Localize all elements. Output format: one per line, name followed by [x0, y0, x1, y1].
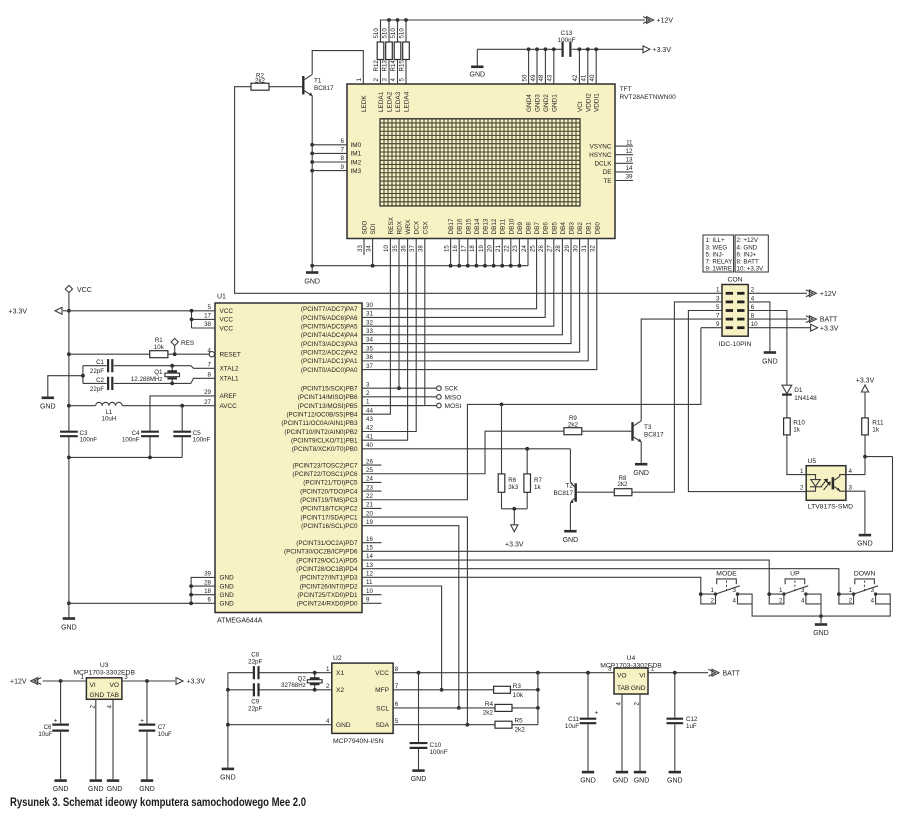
svg-text:24: 24: [366, 476, 373, 483]
svg-text:35: 35: [366, 345, 373, 352]
svg-text:(PCINT29/OC1A)PD5: (PCINT29/OC1A)PD5: [296, 557, 358, 564]
svg-text:X2: X2: [336, 687, 344, 694]
ground (T2): [563, 530, 579, 544]
svg-text:TAB: TAB: [617, 685, 630, 692]
svg-text:VCC: VCC: [375, 670, 389, 677]
wire AREF to C4: [150, 396, 215, 430]
ground (crystal caps): [40, 397, 56, 411]
svg-text:42: 42: [366, 425, 373, 432]
svg-text:44: 44: [366, 407, 373, 414]
svg-text:SCL: SCL: [376, 705, 389, 712]
svg-text:4: 4: [390, 78, 397, 82]
svg-text:R10: R10: [793, 419, 805, 426]
U1 right pin numbers: [366, 302, 373, 604]
svg-text:26: 26: [366, 458, 373, 465]
svg-text:DB5: DB5: [551, 222, 558, 235]
svg-text:(PCINT6/ADC6)PA6: (PCINT6/ADC6)PA6: [301, 315, 358, 322]
svg-text:C2: C2: [96, 377, 104, 384]
svg-text:5: INJ-: 5: INJ-: [706, 251, 724, 258]
wire PC1 SDA vertical to U2: [362, 517, 467, 725]
resistor R1 10k: [69, 337, 175, 358]
svg-text:15: 15: [366, 545, 373, 552]
svg-text:MCP7940N-I/SN: MCP7940N-I/SN: [333, 738, 384, 745]
svg-text:CON: CON: [727, 277, 742, 284]
svg-text:36: 36: [400, 245, 407, 252]
svg-text:10uH: 10uH: [102, 415, 117, 422]
wire +3.3V rail left segment (GND pins): [477, 48, 562, 50]
svg-text:(PCINT4/ADC4)PA4: (PCINT4/ADC4)PA4: [301, 332, 358, 339]
wire CON pin8 to BATT flag: [748, 318, 807, 320]
push button UP: [769, 571, 821, 604]
wire pull-up vertical to VCC net: [537, 673, 539, 725]
node flag RES: [171, 338, 194, 356]
svg-text:GND: GND: [762, 358, 778, 365]
svg-text:13: 13: [626, 157, 633, 164]
svg-text:MOSI: MOSI: [445, 403, 462, 410]
svg-text:GND: GND: [53, 786, 69, 793]
wires DB7-DB0 to PA7-PA0: [362, 255, 597, 370]
svg-text:(PCINT25/TXD0)PD1: (PCINT25/TXD0)PD1: [297, 592, 358, 599]
U1 right pin stubs (unconnected): [362, 465, 382, 603]
svg-text:28: 28: [555, 245, 562, 252]
svg-text:5: 5: [716, 304, 720, 311]
svg-text:22pF: 22pF: [90, 386, 104, 393]
push button MODE: [701, 571, 752, 604]
U3 pin numbers: [81, 674, 129, 708]
svg-text:42: 42: [572, 74, 579, 81]
svg-text:D1: D1: [794, 387, 803, 394]
svg-text:4: 4: [801, 598, 805, 605]
wire R6/R7 to +3.3V: [502, 509, 528, 525]
svg-text:U4: U4: [627, 655, 636, 662]
wire U2 left ground vertical: [227, 673, 229, 768]
svg-text:DB8: DB8: [526, 222, 533, 235]
svg-text:3: 3: [608, 666, 612, 673]
svg-text:10uF: 10uF: [565, 723, 579, 730]
svg-text:11: 11: [626, 139, 633, 146]
svg-text:SCK: SCK: [445, 386, 459, 393]
svg-text:9: 9: [366, 597, 370, 604]
capacitor C3 100nF: [60, 430, 97, 444]
wire U2 X1 row: [228, 672, 332, 674]
svg-text:BATT: BATT: [820, 317, 838, 324]
TFT bottom pin names: [362, 216, 602, 234]
svg-text:TFT: TFT: [620, 86, 632, 93]
svg-text:(PCINT16/SCL)PC0: (PCINT16/SCL)PC0: [301, 523, 358, 530]
svg-text:37: 37: [366, 363, 373, 370]
wire CON pin4 to ground: [748, 302, 770, 351]
svg-text:(PCINT23/TOSC2)PC7: (PCINT23/TOSC2)PC7: [293, 462, 358, 469]
svg-text:510: 510: [382, 28, 389, 39]
wire LEDK pin1 to T1 collector: [312, 51, 363, 84]
svg-text:1: 1: [849, 587, 853, 594]
junction dot emitter-gnd: [310, 264, 314, 268]
node SCK: [437, 386, 459, 393]
svg-text:GND: GND: [220, 592, 235, 599]
svg-text:GND: GND: [220, 575, 235, 582]
svg-text:R5: R5: [515, 718, 524, 725]
svg-text:(PCINT22/TOSC1)PC6: (PCINT22/TOSC1)PC6: [293, 471, 358, 478]
svg-text:1: 1: [651, 666, 655, 673]
wire PD6 row to U5 output net: [362, 457, 893, 552]
ground (U2): [220, 768, 236, 782]
net flag BATT (CON): [806, 316, 838, 324]
svg-text:18: 18: [204, 588, 211, 595]
svg-text:3k3: 3k3: [508, 484, 519, 491]
junction dots GND1-4 pins: [527, 47, 531, 51]
svg-text:16: 16: [452, 245, 459, 252]
svg-text:17: 17: [461, 245, 468, 252]
svg-text:100nF: 100nF: [122, 436, 140, 443]
connector CON IDC-10PIN: [719, 277, 752, 348]
svg-text:LTV817S-SMD: LTV817S-SMD: [808, 503, 853, 510]
resistor R14 510: [390, 20, 401, 84]
wire T2 emitter to ground: [569, 503, 571, 530]
svg-text:GND: GND: [667, 778, 683, 785]
svg-text:DB12: DB12: [491, 218, 498, 234]
svg-text:34: 34: [365, 245, 372, 252]
transistor T3 BC817: [631, 421, 664, 442]
svg-text:AVCC: AVCC: [220, 403, 238, 410]
svg-text:39: 39: [626, 174, 633, 181]
svg-text:DB16: DB16: [457, 218, 464, 234]
svg-text:(PCINT8/XCK0/T0)PB0: (PCINT8/XCK0/T0)PB0: [292, 446, 358, 453]
svg-text:GND: GND: [563, 537, 579, 544]
wires DB17-DB8 to ground bus: [451, 255, 528, 266]
push button DOWN: [839, 571, 890, 604]
TFT right pin numbers: [626, 139, 633, 180]
svg-text:DB0: DB0: [594, 222, 601, 235]
svg-text:LEDA4: LEDA4: [404, 91, 411, 112]
svg-text:1k: 1k: [534, 484, 541, 491]
wire PD2 to U2 MFP: [362, 586, 442, 690]
ground (CON pin4): [762, 351, 778, 365]
svg-text:31: 31: [366, 311, 373, 318]
svg-text:39: 39: [204, 571, 211, 578]
svg-text:RESET: RESET: [220, 352, 241, 359]
svg-text:+3.3V: +3.3V: [856, 378, 875, 385]
net flag +3.3V (U3 output): [176, 678, 205, 686]
voltage regulator U3 MCP1703-3302EDB: [73, 662, 135, 700]
svg-text:3: WEG: 3: WEG: [706, 244, 728, 251]
svg-text:DB17: DB17: [448, 218, 455, 234]
svg-text:(PCINT19/TMS)PC3: (PCINT19/TMS)PC3: [300, 497, 358, 504]
wire +12V rail top: [381, 20, 646, 42]
wire PD4 row to DOWN button: [362, 569, 839, 594]
svg-text:DB7: DB7: [534, 222, 541, 235]
svg-text:ATMEGA644A: ATMEGA644A: [217, 618, 263, 625]
voltage regulator U4 MCP1703-3302EDB: [600, 655, 662, 694]
resistor R7 1k: [524, 449, 543, 509]
svg-text:T3: T3: [644, 424, 652, 431]
svg-text:DB10: DB10: [508, 218, 515, 234]
resistor R11 1k: [846, 392, 884, 475]
svg-text:20: 20: [486, 245, 493, 252]
svg-text:2k2: 2k2: [515, 727, 526, 734]
svg-text:GND: GND: [40, 404, 56, 411]
wire U3 TAB pin to ground: [112, 699, 114, 779]
svg-text:+3.3V: +3.3V: [9, 309, 28, 316]
inductor L1 10uH: [69, 402, 215, 422]
svg-text:2: 2: [779, 598, 783, 605]
svg-text:(PCINT2/ADC2)PA2: (PCINT2/ADC2)PA2: [301, 350, 358, 357]
svg-text:R15: R15: [399, 60, 406, 72]
wire T1 emitter / IM ground line: [311, 96, 313, 266]
capacitor C2 22pF: [83, 377, 215, 393]
svg-text:510: 510: [399, 28, 406, 39]
svg-text:DCX: DCX: [414, 220, 421, 234]
svg-text:(PCINT24/RXD0)PD0: (PCINT24/RXD0)PD0: [297, 601, 358, 608]
svg-text:(PCINT20/TDO)PC4: (PCINT20/TDO)PC4: [300, 488, 358, 495]
wire +3.3V rail right segment (VCI/VDDI): [572, 48, 643, 50]
wire VCC vertical rail: [68, 293, 70, 604]
junction dot UP drive: [767, 592, 771, 596]
resistor R5 2k2: [495, 718, 538, 734]
svg-text:R3: R3: [513, 683, 522, 690]
svg-text:MFP: MFP: [375, 687, 390, 694]
svg-text:510: 510: [390, 28, 397, 39]
wire VCC row U2 to U4: [393, 672, 614, 674]
wire MOSI row PB5: [362, 405, 436, 407]
svg-text:18: 18: [469, 245, 476, 252]
svg-text:DCLK: DCLK: [594, 161, 612, 168]
wire T3 emitter to ground: [640, 442, 642, 463]
svg-text:GND: GND: [88, 786, 104, 793]
ground (C10): [411, 769, 427, 783]
svg-text:1: 1: [800, 468, 804, 475]
svg-text:16: 16: [366, 536, 373, 543]
svg-text:10: 10: [383, 245, 390, 252]
svg-text:2: 2: [326, 683, 330, 690]
svg-text:CSX: CSX: [422, 221, 429, 235]
wire U4 TAB to ground: [621, 694, 623, 771]
wire T3 collector to CON pin7 RELAY: [641, 319, 722, 421]
svg-text:(PCINT15/SCK)PB7: (PCINT15/SCK)PB7: [301, 386, 358, 393]
wire RESX to PB4: [362, 255, 390, 414]
wire CON pin10 to +3.3V flag: [748, 327, 811, 329]
svg-text:9: 9: [341, 164, 345, 171]
svg-text:LEDA1: LEDA1: [378, 91, 385, 112]
svg-text:DB3: DB3: [569, 222, 576, 235]
svg-text:LEDA2: LEDA2: [387, 91, 394, 112]
svg-text:2k2: 2k2: [568, 421, 579, 428]
resistor R4 2k2: [483, 701, 538, 717]
junction dot R6 top: [500, 403, 504, 407]
svg-text:40: 40: [366, 442, 373, 449]
svg-text:41: 41: [366, 433, 373, 440]
svg-text:36: 36: [366, 354, 373, 361]
U2 pin numbers: [326, 666, 399, 725]
svg-text:2k2: 2k2: [618, 481, 629, 488]
svg-text:GND4: GND4: [526, 94, 533, 112]
svg-text:10: 10: [751, 321, 758, 328]
wire MISO row PB6: [362, 396, 436, 398]
svg-text:1: 1: [711, 587, 715, 594]
svg-text:GND: GND: [90, 692, 105, 699]
svg-text:DB2: DB2: [577, 222, 584, 235]
junction dots VCI VDDI2 VDDI1: [578, 47, 582, 51]
svg-text:2: 2: [366, 390, 370, 397]
svg-text:4: 4: [326, 718, 330, 725]
svg-text:RVT28AETNWN00: RVT28AETNWN00: [620, 94, 677, 101]
svg-text:(PCINT7/ADC7)PA7: (PCINT7/ADC7)PA7: [301, 306, 358, 313]
svg-text:2: 2: [849, 598, 853, 605]
capacitor C5 100nF: [173, 406, 210, 458]
svg-text:33: 33: [366, 328, 373, 335]
svg-text:4: 4: [751, 295, 755, 302]
svg-text:32768Hz: 32768Hz: [281, 682, 306, 689]
resistor R2 2k2: [251, 73, 302, 91]
wires U1 GND pins: [69, 577, 215, 603]
svg-text:WRX: WRX: [405, 219, 412, 235]
wire PD3 row to MODE button: [362, 577, 701, 594]
wire button rail to ground: [820, 616, 822, 623]
crystal Q2 32768Hz: [281, 671, 322, 692]
svg-text:10k: 10k: [513, 692, 524, 699]
junction dots IM0-IM3: [310, 143, 314, 147]
svg-text:+: +: [140, 718, 144, 725]
svg-text:SDO: SDO: [362, 221, 369, 235]
svg-text:4: 4: [733, 598, 737, 605]
ground (U5): [857, 534, 873, 548]
svg-text:U5: U5: [808, 458, 817, 465]
svg-text:3: 3: [716, 295, 720, 302]
svg-text:(PCINT9/CLKO/T1)PB1: (PCINT9/CLKO/T1)PB1: [291, 437, 358, 444]
svg-text:(PCINT18/TCK)PC2: (PCINT18/TCK)PC2: [301, 506, 358, 513]
svg-text:40: 40: [589, 74, 596, 81]
svg-text:(PCINT3/ADC3)PA3: (PCINT3/ADC3)PA3: [301, 341, 358, 348]
svg-text:3: 3: [382, 78, 389, 82]
svg-text:(PCINT13/MOSI)PB5: (PCINT13/MOSI)PB5: [298, 403, 358, 410]
wire CON pin5 INJ- to U5 pin2: [688, 311, 806, 492]
svg-text:GND: GND: [470, 72, 486, 79]
svg-text:5: 5: [208, 304, 212, 311]
capacitor C8 22pF: [248, 652, 262, 680]
svg-text:34: 34: [366, 337, 373, 344]
svg-text:100nF: 100nF: [80, 436, 98, 443]
capacitor C6 10uF (electrolytic): [38, 681, 69, 779]
svg-text:(PCINT26/INT0)PD2: (PCINT26/INT0)PD2: [300, 583, 358, 590]
svg-text:3: 3: [366, 381, 370, 388]
svg-text:49: 49: [530, 74, 537, 81]
ground (U3 GND): [88, 779, 104, 793]
svg-text:2k2: 2k2: [483, 709, 494, 716]
svg-text:(PCINT1/ADC1)PA1: (PCINT1/ADC1)PA1: [301, 358, 358, 365]
svg-text:1: 1: [81, 674, 85, 681]
svg-text:DB15: DB15: [465, 218, 472, 234]
svg-text:2: 2: [373, 78, 380, 82]
svg-text:GND: GND: [411, 776, 427, 783]
wire WRX to PB1: [362, 255, 408, 440]
net flag +3.3V (CON): [811, 324, 839, 332]
svg-text:C12: C12: [686, 716, 698, 723]
svg-text:(PCINT30/OC2B/ICP)PD6: (PCINT30/OC2B/ICP)PD6: [284, 549, 358, 556]
svg-text:R6: R6: [508, 477, 516, 484]
svg-text:9: 1WIRE: 9: 1WIRE: [706, 266, 732, 273]
svg-text:43: 43: [547, 74, 554, 81]
svg-text:GND: GND: [107, 786, 123, 793]
wire DCX to PB2: [362, 255, 416, 432]
svg-text:GND: GND: [61, 625, 77, 632]
svg-text:10k: 10k: [154, 344, 165, 351]
svg-text:5: 5: [395, 718, 399, 725]
svg-text:IM3: IM3: [351, 168, 362, 175]
wire U4 VI to BATT flag: [648, 672, 708, 674]
wire PB0 row to R7 and T2 collector: [362, 448, 570, 450]
svg-text:22: 22: [366, 493, 373, 500]
svg-text:1: 1: [366, 399, 370, 406]
wire PD5 row to UP button: [362, 560, 769, 594]
wire 1WIRE net row (CON9 to PC3): [362, 328, 722, 500]
svg-text:1: 1: [356, 78, 363, 82]
svg-text:7: 7: [208, 362, 212, 369]
svg-text:29: 29: [204, 389, 211, 396]
svg-text:1k: 1k: [793, 427, 801, 434]
wire decoupling ground row: [69, 456, 182, 458]
svg-text:R13: R13: [382, 60, 389, 72]
power symbol VCC: [65, 285, 91, 294]
svg-text:R11: R11: [872, 419, 884, 426]
svg-text:+12V: +12V: [10, 679, 27, 686]
svg-text:1uF: 1uF: [686, 723, 697, 730]
svg-text:1N4148: 1N4148: [794, 395, 817, 402]
svg-text:23: 23: [512, 245, 519, 252]
svg-text:8: BATT: 8: BATT: [737, 259, 759, 266]
svg-text:+: +: [54, 718, 58, 725]
svg-text:21: 21: [366, 502, 373, 509]
svg-text:19: 19: [366, 519, 373, 526]
svg-text:IM2: IM2: [351, 159, 362, 166]
wire U2 GND row: [228, 724, 332, 726]
svg-text:MODE: MODE: [716, 571, 737, 578]
wires TFT top pins: [529, 49, 597, 84]
svg-text:48: 48: [538, 74, 545, 81]
svg-text:GND: GND: [304, 279, 320, 286]
svg-text:DB4: DB4: [560, 222, 567, 235]
svg-text:10uF: 10uF: [158, 731, 172, 738]
svg-text:1: 1: [716, 287, 720, 294]
resistor R15 510: [399, 20, 410, 84]
svg-text:+12V: +12V: [657, 18, 674, 25]
pinout table for CON: [703, 235, 768, 273]
svg-text:(PCINT10/INT2/AIN0)PB2: (PCINT10/INT2/AIN0)PB2: [284, 429, 358, 436]
svg-text:33: 33: [357, 245, 364, 252]
svg-text:+3.3V: +3.3V: [187, 679, 206, 686]
svg-text:1: ILL+: 1: ILL+: [706, 237, 725, 244]
svg-text:4: 4: [849, 468, 853, 475]
ground (T3): [633, 463, 649, 477]
capacitor C1 22pF: [83, 359, 215, 375]
svg-text:4: GND: 4: GND: [737, 244, 758, 251]
svg-text:38: 38: [204, 321, 211, 328]
svg-text:GND: GND: [336, 722, 351, 729]
svg-text:10: 10: [366, 588, 373, 595]
capacitor C10 100nF: [410, 673, 448, 770]
svg-text:VCC: VCC: [220, 317, 234, 324]
svg-text:510: 510: [373, 28, 380, 39]
capacitor C11 10uF (electrolytic): [565, 673, 599, 771]
svg-text:VI: VI: [90, 682, 96, 689]
U4 pin numbers: [608, 666, 655, 706]
wire RDX to PB7/SCK row: [398, 255, 400, 388]
svg-text:6: 6: [341, 138, 345, 145]
svg-text:10: +3.3V: 10: +3.3V: [737, 266, 765, 273]
svg-text:GND: GND: [857, 541, 873, 548]
wire +12V to U3 VI: [43, 680, 87, 682]
svg-text:GND: GND: [633, 470, 649, 477]
wire GND stub for +3.3V rail (TFT supply): [476, 49, 478, 65]
svg-text:AREF: AREF: [220, 393, 237, 400]
